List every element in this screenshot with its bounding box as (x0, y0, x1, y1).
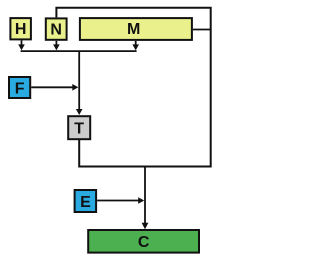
svg-text:H: H (15, 21, 27, 38)
wire F arrow (31, 84, 78, 91)
wire H drop with arrowhead (18, 40, 25, 50)
wire bus to T with arrowhead (76, 51, 83, 115)
wire E arrow (97, 197, 144, 204)
box H (10, 18, 31, 39)
wire M connector to right rail (193, 29, 211, 31)
svg-text:N: N (50, 21, 62, 38)
box F (9, 77, 30, 98)
wire M drop with arrowhead (132, 41, 139, 51)
svg-text:T: T (74, 120, 84, 137)
svg-text:F: F (15, 80, 25, 97)
box E (75, 190, 97, 212)
svg-text:C: C (138, 234, 150, 251)
box M (80, 18, 192, 40)
wire drop to C with arrowhead (142, 167, 149, 230)
box T (68, 116, 90, 139)
wire N drop with arrowhead (53, 41, 60, 51)
wire frame: N top up, across top, down right side, along mid, to T bottom (56, 8, 210, 167)
svg-text:M: M (127, 21, 140, 38)
box C (88, 230, 199, 253)
svg-text:E: E (80, 194, 91, 211)
box N (46, 18, 67, 39)
wire bus line under top boxes (21, 50, 137, 52)
